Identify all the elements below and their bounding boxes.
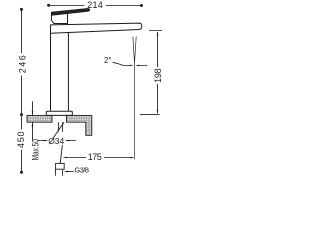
svg-text:Max.50: Max.50 xyxy=(30,139,40,161)
svg-text:Ø34: Ø34 xyxy=(48,136,64,146)
svg-text:175: 175 xyxy=(88,152,102,162)
svg-text:450: 450 xyxy=(16,131,26,148)
svg-text:198: 198 xyxy=(153,68,163,83)
svg-text:G3/8: G3/8 xyxy=(74,165,89,174)
svg-text:2°: 2° xyxy=(104,56,111,65)
svg-text:214: 214 xyxy=(87,0,103,10)
svg-text:246: 246 xyxy=(17,55,27,73)
